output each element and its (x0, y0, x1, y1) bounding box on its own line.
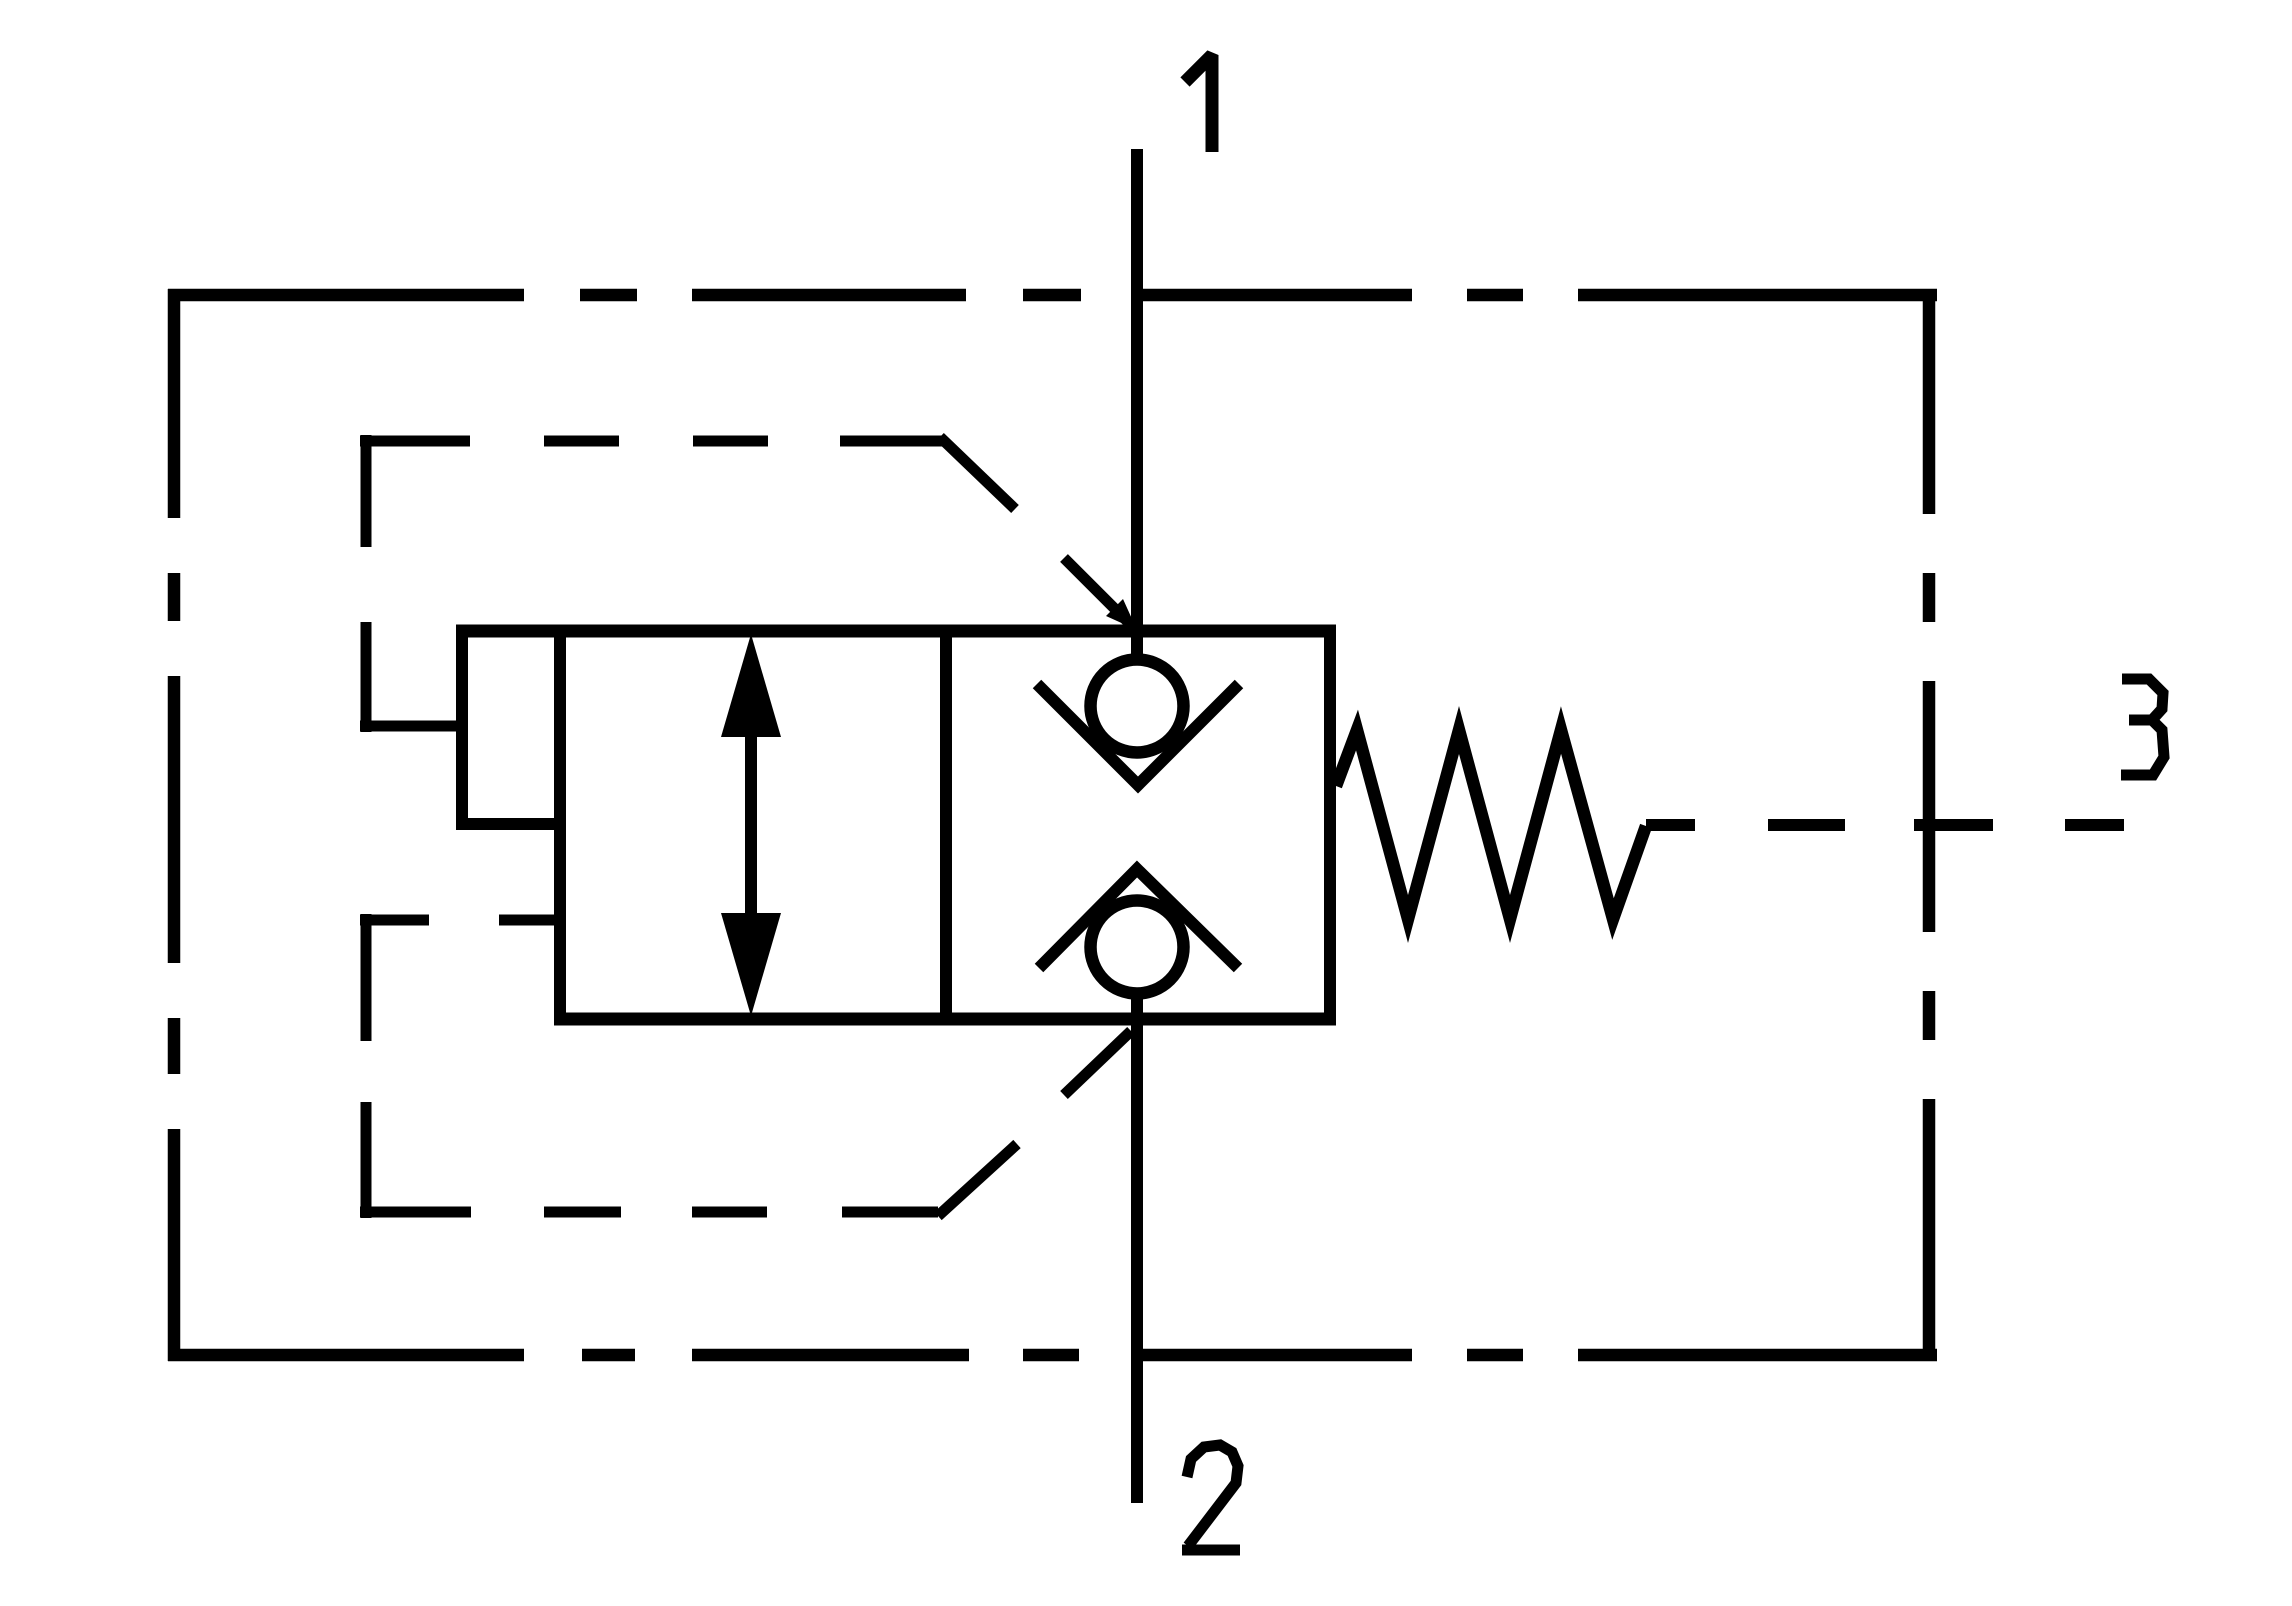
valve center divider edge (940, 631, 952, 1019)
port 3 label "3" (2121, 679, 2164, 775)
outer envelope border, bottom edge (168, 1349, 1937, 1362)
valve pilot tab bottom edge (456, 818, 566, 830)
upper pilot line top edge dashes y=441 (360, 436, 943, 447)
valve body bottom edge (554, 1013, 1336, 1026)
port 1 line (1131, 149, 1143, 656)
upper pilot arrowhead at port 1 junction (1106, 599, 1137, 630)
port 2 line (1131, 993, 1143, 1503)
bottom check valve ball circle (1091, 901, 1184, 994)
outer envelope border, left edge (168, 289, 181, 1361)
double arrow bottom arrowhead (721, 913, 781, 1016)
lower pilot diagonal dashes toward port 2 junction (938, 1031, 1131, 1216)
bottom check valve seat V (1039, 869, 1238, 968)
port 2 label "2" (1182, 1445, 1240, 1550)
double arrow stem in left square (745, 700, 757, 950)
double arrow top arrowhead (721, 634, 781, 737)
lower pilot line bottom edge dashes y=1212 (360, 1207, 938, 1218)
upper pilot line vertical segment x=366 (361, 435, 372, 732)
port 3 dashed line (1646, 819, 2124, 831)
valve body top edge (456, 625, 1336, 638)
outer envelope border, right edge (1923, 289, 1936, 1361)
upper pilot diagonal dashes toward port 1 junction (940, 437, 1130, 624)
outer envelope border (dash-dot), top edge (168, 289, 1937, 302)
valve right square right edge (1324, 631, 1336, 1019)
top check valve stem (1131, 631, 1143, 660)
valve pilot tab rectangle left edge (456, 631, 468, 824)
lower pilot line (dashed) horizontal to left square y=920 (360, 915, 556, 926)
top check valve ball circle (1091, 660, 1184, 753)
lower pilot line vertical segment x=366 (361, 914, 372, 1218)
spring (1336, 730, 1646, 919)
valve left square left edge (554, 631, 566, 1019)
top check valve seat V (1037, 684, 1239, 785)
upper pilot line (dashed) horizontal to tab (360, 721, 457, 732)
port 1 label "1" (1185, 55, 1212, 152)
